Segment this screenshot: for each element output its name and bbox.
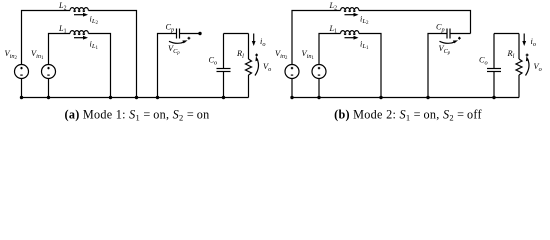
svg-text:Co: Co — [479, 56, 488, 67]
svg-text:(a) Mode 1: S1 = on, S2 = on: (a) Mode 1: S1 = on, S2 = on — [64, 108, 209, 123]
node dot at Co / rail (b) — [492, 96, 495, 99]
svg-text:Co: Co — [209, 56, 218, 67]
wire: bottom rail — [22, 97, 249, 99]
voltage arc VCp (b) — [440, 41, 456, 43]
wire: output top edge (b) — [494, 33, 519, 35]
wire: Rl lower lead (b) — [518, 75, 520, 98]
current arrow io (b) — [523, 34, 525, 43]
current arrow iL1 (b) — [345, 37, 355, 39]
node dot at L1 / rail (b) — [379, 96, 382, 99]
resistor Rl — [246, 59, 252, 75]
current arrow iL1 — [74, 37, 84, 39]
current arrow iL2 — [74, 14, 84, 16]
wire: Vin1 bottom lead — [48, 79, 50, 98]
svg-text:iL1: iL1 — [360, 39, 369, 51]
svg-text:VCp: VCp — [168, 44, 180, 56]
svg-text:VCp: VCp — [439, 44, 451, 56]
wire: Cp right lead to L2 corner (b) — [450, 33, 471, 35]
capacitor Co — [217, 68, 231, 70]
svg-text:Rl: Rl — [507, 49, 515, 60]
wire: output top edge — [224, 33, 249, 35]
node dot at Co / rail — [222, 96, 225, 99]
wire: Co lower lead — [223, 72, 225, 98]
node dot at Cp / rail — [156, 96, 159, 99]
svg-text:L1: L1 — [329, 24, 338, 34]
wire: Vin1 bottom lead (b) — [318, 79, 320, 98]
wire: Rl lower lead — [248, 75, 250, 98]
node dot at L2 / rail — [135, 96, 138, 99]
plus sign of Vo — [255, 54, 258, 56]
wire: Co lower lead (b) — [493, 72, 495, 98]
voltage arc Vo — [255, 59, 259, 76]
svg-text:iL2: iL2 — [360, 14, 369, 26]
svg-text:Vin2: Vin2 — [5, 49, 18, 61]
svg-text:Vin1: Vin1 — [302, 49, 315, 61]
capacitor Cp (b) — [446, 29, 448, 39]
voltage arc VCp — [169, 41, 185, 43]
current arrow io — [253, 34, 255, 43]
wire: Co upper lead — [223, 34, 225, 69]
capacitor Co (b) — [487, 68, 501, 70]
svg-text:Cp: Cp — [166, 23, 175, 34]
svg-text:L2: L2 — [58, 1, 67, 11]
voltage source Vin2 — [15, 65, 29, 79]
wire: Vin2 bottom lead — [21, 79, 23, 98]
svg-text:Cp: Cp — [436, 23, 445, 34]
wire: Cp branch vertical and left lead (b) — [428, 34, 447, 98]
svg-text:L2: L2 — [329, 1, 338, 11]
svg-text:io: io — [531, 37, 536, 48]
node dot at Vin1 / rail (b) — [317, 96, 320, 99]
wire: L1 left vertical and top-left segment — [49, 34, 71, 65]
wire: Co upper lead (b) — [493, 34, 495, 69]
wire: L1 top-right segment and right vertical — [88, 34, 110, 98]
svg-text:L1: L1 — [58, 24, 67, 34]
svg-text:(b) Mode 2: S1 = on, S2 = off: (b) Mode 2: S1 = on, S2 = off — [334, 108, 482, 123]
svg-text:iL1: iL1 — [90, 39, 99, 51]
inductor L1 — [70, 31, 88, 35]
svg-text:Vo: Vo — [534, 62, 542, 73]
svg-text:Rl: Rl — [236, 49, 244, 60]
svg-text:Vin1: Vin1 — [31, 49, 44, 61]
wire: L2 top-right segment down to Cp node (b) — [359, 11, 471, 34]
wire: L2 top-right segment and right vertical — [88, 11, 136, 98]
node dot at Cp / rail (b) — [426, 96, 429, 99]
wire: Cp right lead to open node — [180, 33, 201, 35]
wire: L1 top-right segment and right vertical (b) — [359, 34, 381, 98]
svg-text:Vin2: Vin2 — [275, 49, 288, 61]
plus sign of Vo (b) — [526, 54, 529, 56]
wire: Vin2 bottom lead (b) — [291, 79, 293, 98]
voltage source Vin1 — [42, 65, 56, 79]
voltage source Vin2 (b) — [285, 65, 299, 79]
voltage arc Vo (b) — [526, 59, 530, 76]
node dot at Vin2 / rail — [20, 96, 23, 99]
node dot at Vin2 / rail (b) — [290, 96, 293, 99]
capacitor Cp — [176, 29, 178, 39]
node: S2 open terminal dot — [198, 32, 201, 35]
inductor L2 — [70, 8, 88, 12]
svg-text:iL2: iL2 — [90, 14, 99, 26]
svg-text:Vo: Vo — [263, 62, 271, 73]
voltage source Vin1 (b) — [312, 65, 326, 79]
resistor Rl (b) — [516, 59, 522, 75]
plus sign of VCp — [188, 37, 191, 39]
wire: L2 left vertical and top-left segment (b) — [292, 11, 341, 65]
svg-text:io: io — [260, 37, 265, 48]
wire: L2 left vertical and top-left segment — [22, 11, 71, 65]
wire: L1 left vertical and top-left segment (b) — [319, 34, 341, 65]
current arrow iL2 (b) — [345, 14, 355, 16]
node dot at Vin1 / rail — [47, 96, 50, 99]
inductor L2 (b) — [341, 8, 359, 12]
wire: Rl upper lead — [248, 34, 250, 60]
plus sign of VCp (b) — [458, 37, 461, 39]
wire: bottom rail (b) — [292, 97, 519, 99]
node dot at L1 / rail — [109, 96, 112, 99]
wire: Rl upper lead (b) — [518, 34, 520, 60]
inductor L1 (b) — [341, 31, 359, 35]
wire: Cp branch vertical and left lead — [158, 34, 177, 98]
